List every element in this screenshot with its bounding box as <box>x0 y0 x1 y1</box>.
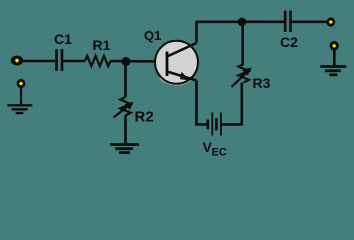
svg-text:C2: C2 <box>280 34 298 50</box>
svg-text:R1: R1 <box>93 37 111 53</box>
svg-text:Q1: Q1 <box>144 28 161 43</box>
svg-text:EC: EC <box>212 147 227 159</box>
svg-text:C1: C1 <box>54 31 72 47</box>
svg-text:R3: R3 <box>253 75 271 91</box>
svg-text:R2: R2 <box>135 109 154 126</box>
